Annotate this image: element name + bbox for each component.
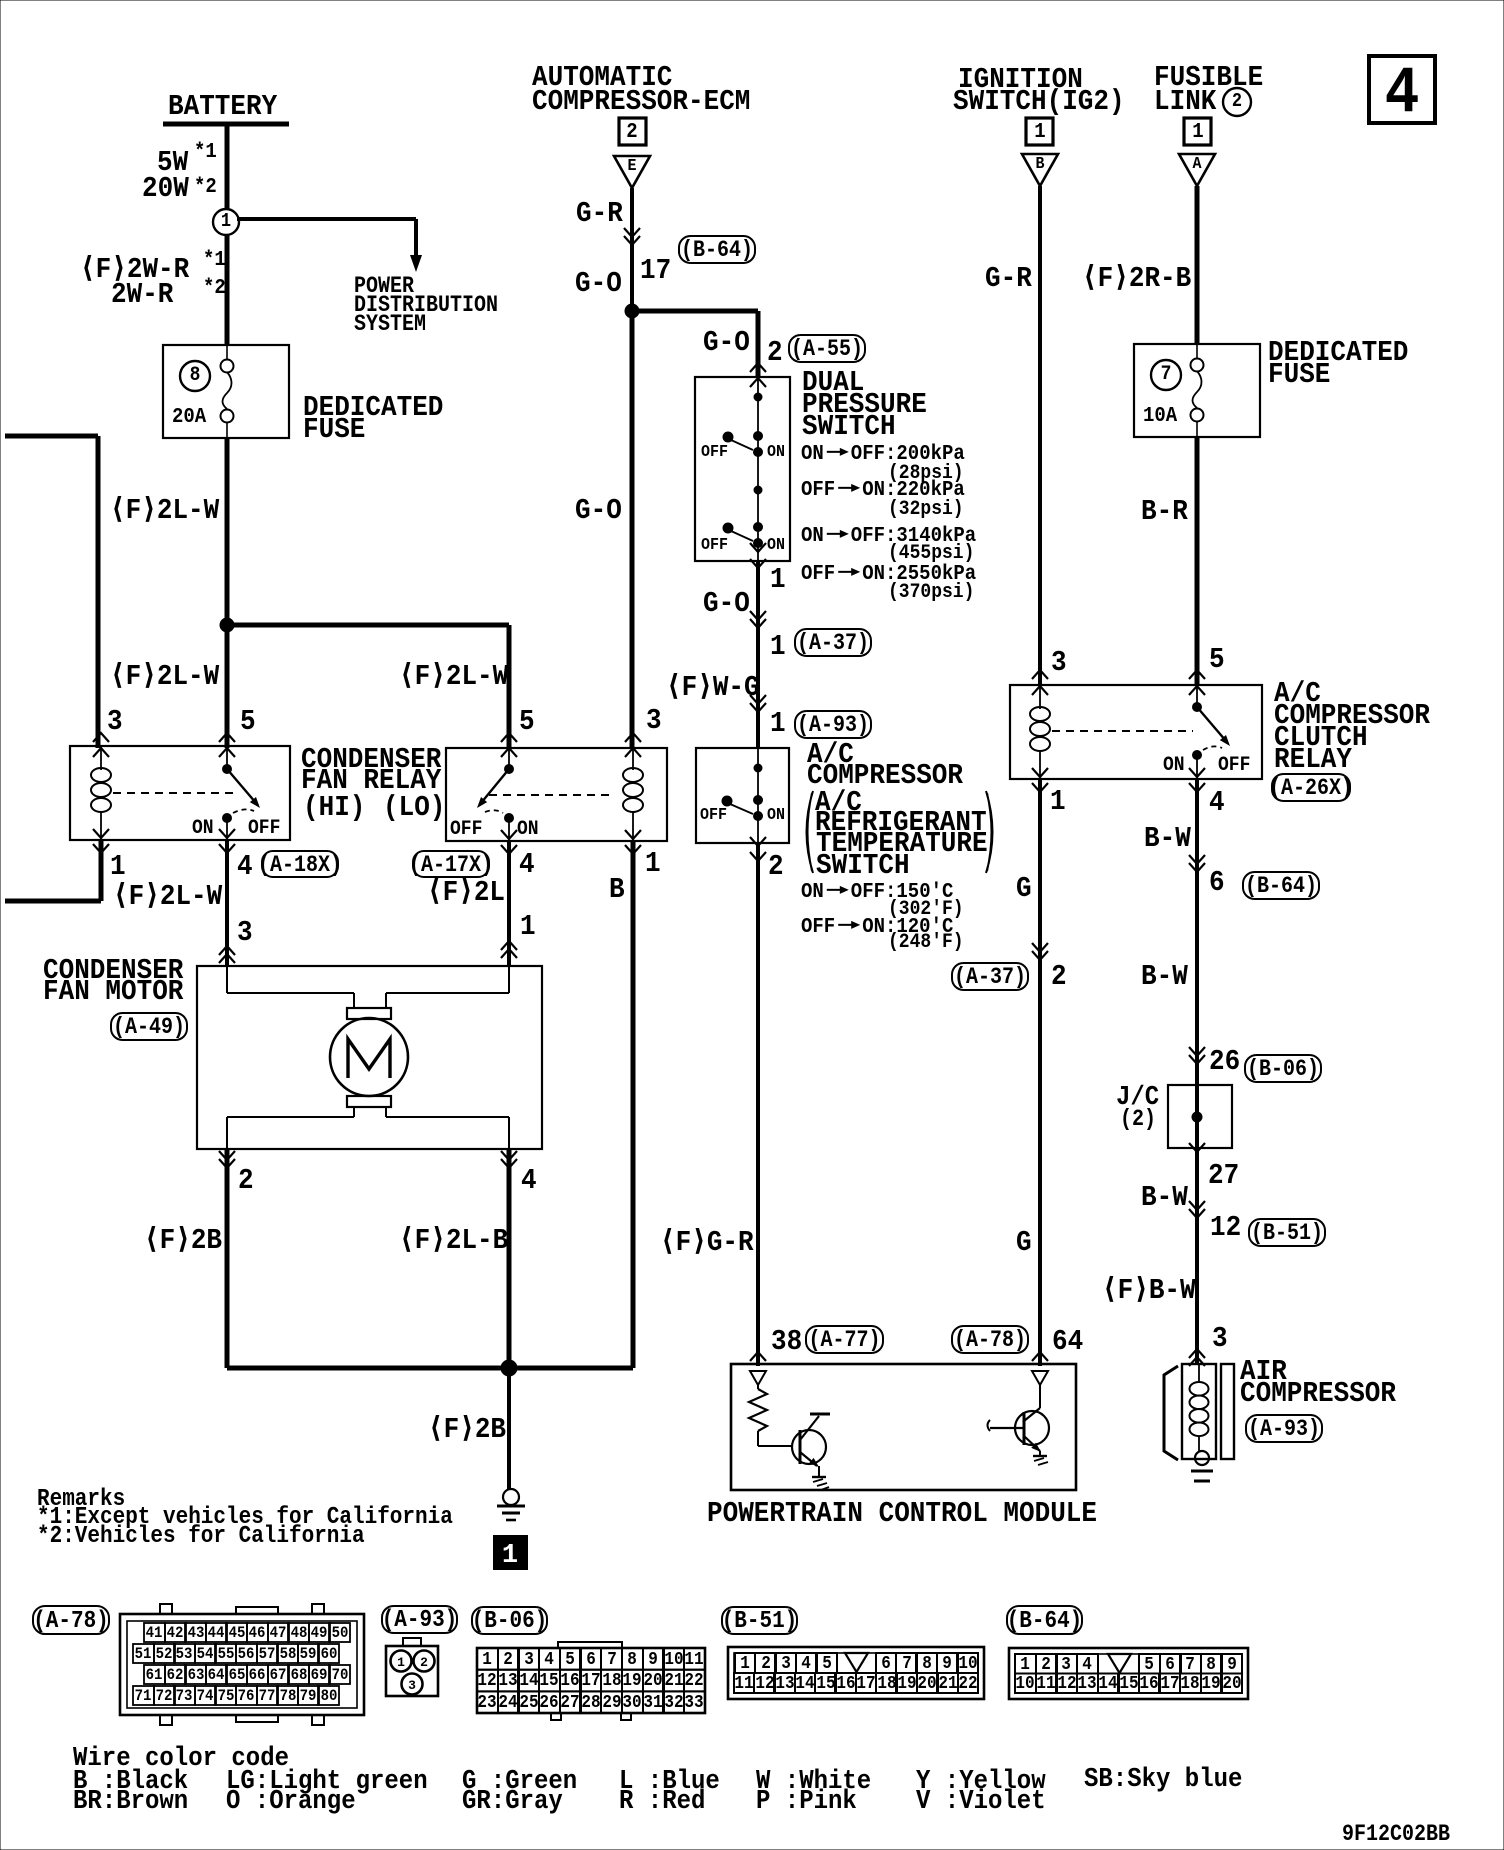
svg-text:4: 4: [519, 848, 535, 881]
svg-text:(B-51): (B-51): [722, 1608, 798, 1635]
svg-text:11: 11: [684, 1650, 703, 1670]
svg-text:31: 31: [643, 1693, 662, 1713]
svg-text:B-W: B-W: [1144, 822, 1191, 855]
svg-text:1: 1: [1192, 121, 1203, 144]
svg-text:(B-51): (B-51): [1251, 1220, 1323, 1246]
drawing number 9F12C02BB: [1342, 1821, 1450, 1847]
wire clutch relay pin 1 to PCM pin 64: [1038, 779, 1042, 1366]
svg-text:1: 1: [221, 210, 231, 232]
svg-text:1: 1: [770, 630, 786, 663]
pin 3 label motor: [237, 916, 253, 949]
label B-R: [1141, 495, 1188, 528]
connector chevrons A-93 pin 1: [750, 695, 766, 712]
svg-text:72: 72: [156, 1687, 173, 1705]
relay switch HI: [223, 748, 261, 840]
svg-text:R :Red: R :Red: [619, 1787, 705, 1817]
svg-text:5: 5: [240, 705, 256, 738]
remarks text: [37, 1486, 453, 1550]
ON label temperature switch: [767, 806, 785, 825]
dual pressure switch box A-55: [695, 377, 790, 561]
connector label A-17X: [409, 851, 493, 878]
ON label pressure switch 2: [767, 536, 785, 555]
svg-text:9: 9: [648, 1650, 658, 1670]
svg-text:SB:Sky blue: SB:Sky blue: [1084, 1765, 1242, 1795]
a/c compressor clutch relay label: [1274, 677, 1431, 776]
svg-text:77: 77: [259, 1687, 276, 1705]
svg-text:64: 64: [1052, 1325, 1083, 1358]
wire fuse 8 to junction: [225, 438, 230, 625]
pin 5 label clutch relay: [1209, 643, 1225, 676]
svg-text:17: 17: [581, 1671, 600, 1691]
svg-text:8: 8: [190, 364, 201, 387]
svg-text:5: 5: [1209, 643, 1225, 676]
svg-text:B: B: [1036, 155, 1045, 174]
svg-text:70: 70: [332, 1666, 349, 1684]
svg-text:OFF: OFF: [700, 806, 727, 825]
connector chevrons B-06 pin 26: [1189, 1047, 1205, 1064]
relay dashed link HI: [113, 792, 237, 794]
svg-text:(A-93): (A-93): [1248, 1416, 1320, 1442]
a/c compressor refrigerant temperature switch label: [807, 738, 993, 882]
PCM transistor Q2: [988, 1385, 1050, 1456]
pin 2 label A-93: [768, 850, 784, 883]
svg-text:2: 2: [238, 1164, 254, 1197]
svg-text:33: 33: [684, 1693, 703, 1713]
svg-text:22: 22: [958, 1674, 977, 1694]
svg-text:BATTERY: BATTERY: [168, 90, 278, 123]
svg-text:1: 1: [110, 850, 126, 883]
svg-text:41: 41: [146, 1624, 163, 1642]
svg-text:2: 2: [1051, 960, 1067, 993]
junction dot battery branch: [220, 618, 234, 632]
connector chevrons B-64 pin 6: [1189, 855, 1205, 872]
wire ECM to junction: [630, 188, 634, 311]
svg-text:5: 5: [1144, 1655, 1154, 1675]
label (F)2L-W to LO relay: [399, 660, 509, 693]
svg-text:21: 21: [938, 1674, 957, 1694]
junction connector J/C (2) box: [1168, 1085, 1232, 1148]
svg-text:32: 32: [664, 1693, 683, 1713]
svg-text:1: 1: [770, 707, 786, 740]
wire clutch relay pin 4 to air compressor: [1195, 779, 1199, 1364]
svg-text:19: 19: [622, 1671, 641, 1691]
svg-text:50: 50: [332, 1624, 349, 1642]
svg-text:14: 14: [795, 1674, 814, 1694]
a/c compressor clutch relay box A-26X: [1010, 685, 1262, 779]
dual pressure switch label: [802, 366, 927, 443]
svg-text:63: 63: [188, 1666, 205, 1684]
svg-text:18: 18: [602, 1671, 621, 1691]
connector A-93 pin diagram: [386, 1638, 438, 1696]
pressure switch contact 1: [723, 432, 763, 457]
label (F)2B motor ground: [144, 1224, 222, 1257]
svg-text:OFF: OFF: [801, 916, 835, 939]
svg-text:POWERTRAIN CONTROL MODULE: POWERTRAIN CONTROL MODULE: [707, 1497, 1097, 1530]
pin chevron PCM pin 38: [750, 1352, 766, 1361]
condenser fan motor label: [43, 954, 184, 1008]
svg-text:9: 9: [1227, 1655, 1237, 1675]
svg-text:(A-77): (A-77): [809, 1327, 881, 1353]
fusible link 2 label: [1154, 61, 1263, 118]
svg-text:3: 3: [107, 705, 123, 738]
svg-text:3: 3: [646, 704, 662, 737]
pin 2 label motor: [238, 1164, 254, 1197]
svg-text:38: 38: [771, 1325, 802, 1358]
svg-text:1: 1: [1020, 1655, 1030, 1675]
connector B-06 pin grid: [477, 1642, 705, 1720]
svg-text:11: 11: [1036, 1674, 1055, 1694]
svg-text:56: 56: [238, 1645, 255, 1663]
node 1 (circled junction): [213, 209, 239, 235]
connector chevrons A-37 pin 2: [1032, 943, 1048, 960]
pin 12 label B-51: [1210, 1211, 1241, 1244]
svg-text:SWITCH: SWITCH: [816, 849, 910, 882]
connector label B-64 top: [679, 236, 755, 263]
wire LO relay pin 1 (B) to ground bus: [631, 841, 636, 1368]
wire battery to node 1: [225, 124, 230, 209]
svg-text:(B-06): (B-06): [472, 1608, 548, 1635]
label G-O to relay: [575, 494, 622, 527]
ON label LO relay: [517, 818, 539, 841]
svg-text:(HI): (HI): [303, 791, 365, 824]
svg-text:(A-37): (A-37): [954, 964, 1026, 990]
svg-text:2: 2: [503, 1650, 513, 1670]
svg-text:⟨F⟩2R-B: ⟨F⟩2R-B: [1082, 262, 1191, 295]
svg-text:6: 6: [881, 1654, 891, 1674]
svg-text:20A: 20A: [172, 406, 207, 429]
svg-text:27: 27: [560, 1693, 579, 1713]
motor terminal top: [347, 1008, 391, 1019]
svg-text:BR:Brown: BR:Brown: [73, 1787, 188, 1817]
temperature switch internal wire: [754, 748, 762, 843]
pin 17 label: [640, 254, 671, 287]
page number box 4: [1369, 56, 1435, 131]
svg-text:G-O: G-O: [703, 587, 750, 620]
svg-text:3: 3: [237, 916, 253, 949]
svg-text:O :Orange: O :Orange: [226, 1787, 356, 1817]
svg-text:21: 21: [664, 1671, 683, 1691]
wire color code legend: [73, 1744, 1242, 1817]
svg-text:8: 8: [922, 1654, 932, 1674]
svg-text:ON: ON: [801, 443, 824, 466]
label G-O to pressure switch: [703, 326, 750, 359]
svg-text:4: 4: [801, 1654, 811, 1674]
svg-text:71: 71: [135, 1687, 152, 1705]
pin 1 label A-37: [770, 630, 786, 663]
connector chevrons B-64 pin 17: [624, 228, 640, 245]
svg-text:52: 52: [156, 1645, 173, 1663]
connector chevrons A-93 pin 3: [1189, 1349, 1205, 1366]
pin 4 label clutch relay: [1209, 786, 1225, 819]
condenser fan relay LO box A-17X: [446, 748, 667, 841]
svg-text:53: 53: [176, 1645, 193, 1663]
clutch relay switch: [1193, 685, 1231, 779]
label (F)2W-R *1: [80, 249, 226, 286]
connector label A-78 bottom: [33, 1606, 109, 1635]
svg-text:OFF: OFF: [450, 818, 482, 841]
pressure switch contact 2: [723, 523, 763, 548]
svg-text:60: 60: [321, 1645, 338, 1663]
svg-text:8: 8: [1206, 1655, 1216, 1675]
wire LO relay pin 4 to motor pin 1: [507, 841, 511, 966]
svg-text:FAN MOTOR: FAN MOTOR: [43, 975, 184, 1008]
connector label A-93 air compressor: [1246, 1415, 1322, 1442]
svg-text:3: 3: [408, 1678, 416, 1693]
svg-text:5: 5: [822, 1654, 832, 1674]
svg-text:2: 2: [767, 336, 783, 369]
ignition switch IG2 label: [953, 63, 1125, 118]
svg-text:V :Violet: V :Violet: [916, 1787, 1046, 1817]
svg-text:65: 65: [229, 1666, 246, 1684]
pressure switch internal wire: [754, 377, 762, 561]
svg-text:(A-55): (A-55): [791, 336, 863, 362]
svg-text:6: 6: [1209, 866, 1225, 899]
svg-text:B-W: B-W: [1141, 1181, 1188, 1214]
svg-text:*1: *1: [203, 249, 226, 272]
svg-text:19: 19: [897, 1674, 916, 1694]
battery terminal bar: [163, 122, 289, 127]
label (F)2L-W HI output: [113, 880, 223, 913]
label (F)B-W: [1102, 1274, 1196, 1307]
pin 27 label: [1208, 1159, 1239, 1192]
label G-R ECM: [576, 197, 623, 230]
svg-text:GR:Gray: GR:Gray: [462, 1787, 563, 1817]
svg-text:55: 55: [218, 1645, 235, 1663]
ECM triangle E: [614, 156, 650, 188]
relay coil LO: [623, 748, 643, 841]
label (F)2R-B: [1082, 262, 1191, 295]
svg-text:G-R: G-R: [985, 262, 1032, 295]
wire fuse 7 to clutch relay pin 5: [1195, 437, 1200, 685]
ignition connector box 1: [1026, 118, 1053, 145]
svg-text:OFF: OFF: [248, 817, 280, 840]
pin chevrons LO relay bottom: [501, 830, 641, 854]
svg-text:64: 64: [208, 1666, 225, 1684]
svg-text:20: 20: [1222, 1674, 1241, 1694]
svg-text:5: 5: [565, 1650, 575, 1670]
refrigerant temperature switch box: [696, 748, 789, 843]
svg-text:ON: ON: [517, 818, 539, 841]
pin 38 label PCM: [771, 1325, 802, 1358]
wire ground bus to ground point 1: [507, 1368, 511, 1489]
svg-text:3: 3: [781, 1654, 791, 1674]
OFF label pressure switch 1: [701, 443, 728, 462]
connector label A-37 upper: [795, 629, 871, 656]
pin chevrons pressure switch bottom: [750, 543, 766, 568]
label 20W *2: [142, 172, 217, 205]
svg-text:44: 44: [208, 1624, 225, 1642]
svg-text:26: 26: [1209, 1045, 1240, 1078]
svg-text:1: 1: [502, 1541, 518, 1571]
svg-text:18: 18: [1180, 1674, 1199, 1694]
ignition triangle B: [1022, 154, 1058, 186]
PCM transistor Q1: [792, 1414, 830, 1477]
label G lower: [1016, 1226, 1032, 1259]
label (F)W-G: [666, 671, 760, 704]
connector label A-77: [806, 1326, 883, 1353]
pin 5 label LO relay: [519, 705, 535, 738]
temperature switch contact: [722, 796, 763, 821]
pin chevrons HI relay bottom: [93, 829, 235, 853]
svg-text:10A: 10A: [1143, 405, 1178, 428]
svg-text:B-W: B-W: [1141, 960, 1188, 993]
pin 4 label HI relay: [237, 850, 253, 883]
wire motor pin 2 to ground bus: [225, 1149, 230, 1368]
svg-text:(LO): (LO): [383, 791, 445, 824]
svg-text:45: 45: [229, 1624, 246, 1642]
svg-text:ON: ON: [801, 525, 824, 548]
pin 1 label LO relay: [645, 847, 661, 880]
pin 3 label A-93 air compressor: [1212, 1322, 1228, 1355]
svg-text:4: 4: [1209, 786, 1225, 819]
wire ECM junction to LO relay coil pin 3: [630, 311, 635, 748]
air compressor pulley bracket: [1164, 1366, 1178, 1460]
svg-text:42: 42: [167, 1624, 184, 1642]
connector chevrons motor pin 2: [219, 1151, 235, 1168]
wire ignition to clutch relay coil: [1038, 186, 1042, 685]
connector label A-93 upper: [795, 711, 871, 738]
svg-text:⟨F⟩2L-W: ⟨F⟩2L-W: [110, 660, 220, 693]
svg-text:(248'F): (248'F): [888, 931, 964, 954]
svg-text:1: 1: [1034, 121, 1045, 144]
svg-text:10: 10: [1015, 1674, 1034, 1694]
svg-text:9: 9: [942, 1654, 952, 1674]
svg-text:29: 29: [602, 1693, 621, 1713]
connector chevrons B-51 pin 12: [1189, 1201, 1205, 1218]
svg-text:6: 6: [586, 1650, 596, 1670]
svg-text:1: 1: [520, 910, 536, 943]
connector chevrons motor pin 3: [219, 946, 235, 963]
svg-text:9F12C02BB: 9F12C02BB: [1342, 1821, 1450, 1847]
svg-text:⟨F⟩2L-B: ⟨F⟩2L-B: [399, 1224, 508, 1257]
svg-text:*2:Vehicles for California: *2:Vehicles for California: [37, 1523, 365, 1550]
svg-text:30: 30: [622, 1693, 641, 1713]
svg-text:⟨F⟩2L-W: ⟨F⟩2L-W: [399, 660, 509, 693]
svg-text:59: 59: [300, 1645, 317, 1663]
junction dot ground bus: [501, 1360, 517, 1376]
svg-text:18: 18: [877, 1674, 896, 1694]
connector chevrons A-37 pin 1: [750, 611, 766, 628]
motor M circle: [330, 1018, 408, 1096]
fusible link connector box 1: [1184, 118, 1211, 145]
svg-text:2: 2: [1232, 90, 1242, 112]
svg-text:69: 69: [311, 1666, 328, 1684]
relay switch LO: [477, 748, 514, 841]
svg-text:66: 66: [249, 1666, 266, 1684]
svg-text:G: G: [1016, 1226, 1032, 1259]
pin chevrons LO relay top: [501, 733, 641, 757]
svg-text:(B-64): (B-64): [681, 237, 753, 263]
label G-O ECM: [575, 267, 622, 300]
connector A-78 pin grid: [120, 1604, 364, 1725]
svg-text:14: 14: [1098, 1674, 1117, 1694]
svg-text:17: 17: [640, 254, 671, 287]
svg-text:11: 11: [734, 1674, 753, 1694]
svg-text:1: 1: [482, 1650, 492, 1670]
svg-text:23: 23: [477, 1693, 496, 1713]
wire ECM junction to dual pressure switch: [632, 311, 758, 377]
svg-text:⟨F⟩2B: ⟨F⟩2B: [428, 1413, 506, 1446]
svg-text:13: 13: [1077, 1674, 1096, 1694]
svg-text:43: 43: [188, 1624, 205, 1642]
wire pressure switch to refrigerant temperature switch: [756, 561, 760, 748]
svg-text:*2: *2: [203, 277, 226, 300]
svg-text:48: 48: [291, 1624, 308, 1642]
ON label clutch relay: [1163, 754, 1185, 777]
svg-text:17: 17: [856, 1674, 875, 1694]
label B wire ECM: [609, 873, 625, 906]
OFF label pressure switch 2: [701, 536, 728, 555]
svg-text:7: 7: [1161, 363, 1172, 386]
air compressor body and clutch coil A-93: [1182, 1364, 1234, 1465]
svg-text:13: 13: [498, 1671, 517, 1691]
connector label B-64 bottom: [1007, 1606, 1083, 1635]
svg-text:3: 3: [1212, 1322, 1228, 1355]
label G-R ignition: [985, 262, 1032, 295]
svg-text:3: 3: [1061, 1655, 1071, 1675]
relay dashed link LO: [489, 794, 615, 796]
ON label pressure switch 1: [767, 443, 785, 462]
svg-text:E: E: [628, 157, 637, 176]
svg-text:⟨F⟩2L-W: ⟨F⟩2L-W: [113, 880, 223, 913]
svg-text:12: 12: [477, 1671, 496, 1691]
pin 2 label A-37: [1051, 960, 1067, 993]
svg-text:ON: ON: [767, 443, 785, 462]
svg-text:12: 12: [1057, 1674, 1076, 1694]
svg-text:62: 62: [167, 1666, 184, 1684]
svg-text:G-O: G-O: [575, 267, 622, 300]
svg-text:ON: ON: [801, 881, 824, 904]
svg-text:16: 16: [836, 1674, 855, 1694]
svg-text:OFF: OFF: [701, 443, 728, 462]
svg-text:FUSE: FUSE: [1268, 358, 1330, 391]
connector label A-18X: [258, 851, 342, 878]
J/C (2) label: [1116, 1083, 1159, 1132]
connector label B-51 bottom: [722, 1607, 798, 1635]
motor terminal bottom: [347, 1096, 391, 1107]
battery label: [168, 90, 278, 123]
svg-text:2: 2: [761, 1654, 771, 1674]
pin chevron J/C bottom: [1189, 1143, 1205, 1152]
svg-text:15: 15: [1119, 1674, 1138, 1694]
svg-text:⟨F⟩W-G: ⟨F⟩W-G: [666, 671, 760, 704]
svg-text:25: 25: [519, 1693, 538, 1713]
svg-text:SWITCH(IG2): SWITCH(IG2): [953, 85, 1125, 118]
svg-text:6: 6: [1165, 1655, 1175, 1675]
wire temperature switch to PCM pin 38: [756, 843, 760, 1366]
power distribution system label: [354, 273, 498, 337]
ON label HI relay: [192, 817, 214, 840]
svg-text:LINK: LINK: [1154, 85, 1217, 118]
svg-text:2: 2: [1041, 1655, 1051, 1675]
svg-text:(32psi): (32psi): [888, 498, 964, 521]
svg-text:B-R: B-R: [1141, 495, 1188, 528]
wire junction to condenser fan relay HI pin 5: [225, 625, 230, 748]
condenser fan relay label: [301, 743, 445, 824]
svg-text:28: 28: [581, 1693, 600, 1713]
pin chevrons HI relay top: [93, 733, 235, 757]
svg-text:47: 47: [270, 1624, 287, 1642]
svg-text:⟨F⟩2L: ⟨F⟩2L: [427, 876, 505, 909]
PCM transistor Q1 ground hatch: [812, 1477, 829, 1490]
pin 1 label HI relay: [110, 850, 126, 883]
svg-text:G-R: G-R: [576, 197, 623, 230]
svg-text:5: 5: [519, 705, 535, 738]
connector label B-64 mid: [1243, 872, 1319, 899]
automatic compressor-ECM label: [532, 61, 750, 118]
svg-text:7: 7: [1185, 1655, 1195, 1675]
pin chevrons clutch relay top: [1032, 670, 1205, 695]
